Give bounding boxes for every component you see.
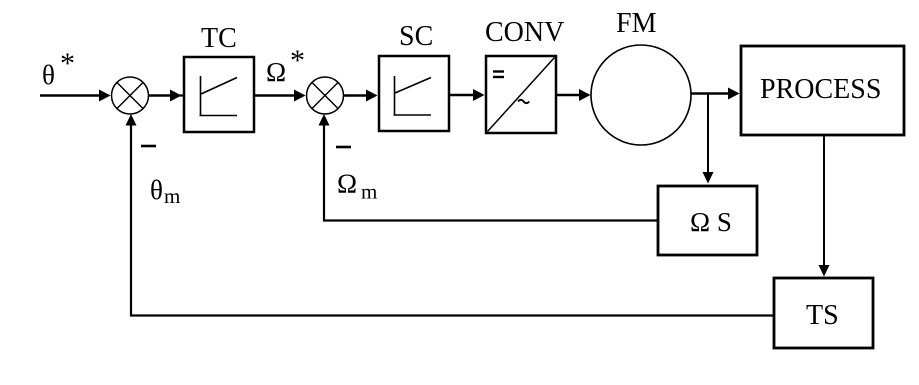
svg-text:Ω: Ω	[266, 57, 286, 87]
block TS (position sensor)	[774, 278, 873, 348]
motor FM	[591, 45, 691, 145]
node Omega*	[266, 44, 305, 87]
minus sign at summer 2	[336, 146, 351, 149]
node: speed tap junction	[703, 94, 714, 184]
wire: FM to PROCESS	[691, 88, 740, 100]
svg-text:CONV: CONV	[485, 17, 564, 48]
wire: SC to CONV	[449, 89, 485, 101]
svg-text:m: m	[361, 180, 377, 204]
block PROCESS	[741, 46, 904, 135]
node theta* (input label)	[42, 47, 75, 90]
summing junction 1	[112, 77, 149, 114]
wire: PROCESS to TS	[819, 136, 830, 277]
svg-text:Ω S: Ω S	[690, 207, 732, 237]
svg-text:SC: SC	[399, 21, 433, 52]
wire: summer 1 to TC	[149, 90, 184, 102]
wire: TC to summer 2	[254, 90, 306, 102]
wire: summer 2 to SC	[344, 90, 378, 102]
block CONV (converter)	[486, 56, 556, 133]
wire: input to summer 1	[40, 90, 111, 102]
summing junction 2	[307, 77, 344, 114]
svg-text:FM: FM	[616, 8, 657, 39]
node Omega_m (feedback label)	[337, 169, 377, 204]
svg-text:*: *	[60, 47, 75, 80]
svg-text:PROCESS: PROCESS	[760, 74, 881, 105]
svg-text:TC: TC	[201, 23, 237, 54]
block Omega-S (speed sensor)	[658, 186, 757, 255]
wire: CONV to FM	[556, 89, 591, 101]
svg-text:θ: θ	[150, 175, 163, 205]
svg-text:m: m	[164, 184, 180, 208]
svg-text:θ: θ	[42, 60, 55, 90]
block TC	[184, 57, 254, 132]
svg-text:*: *	[290, 44, 305, 77]
node theta_m (feedback label)	[150, 175, 180, 208]
minus sign at summer 1	[141, 145, 156, 148]
wire: Omega-S feedback to summer 2	[319, 114, 658, 222]
svg-text:TS: TS	[806, 300, 839, 331]
svg-text:Ω: Ω	[337, 169, 357, 199]
wire: TS feedback to summer 1	[126, 114, 774, 317]
block SC	[379, 56, 449, 131]
